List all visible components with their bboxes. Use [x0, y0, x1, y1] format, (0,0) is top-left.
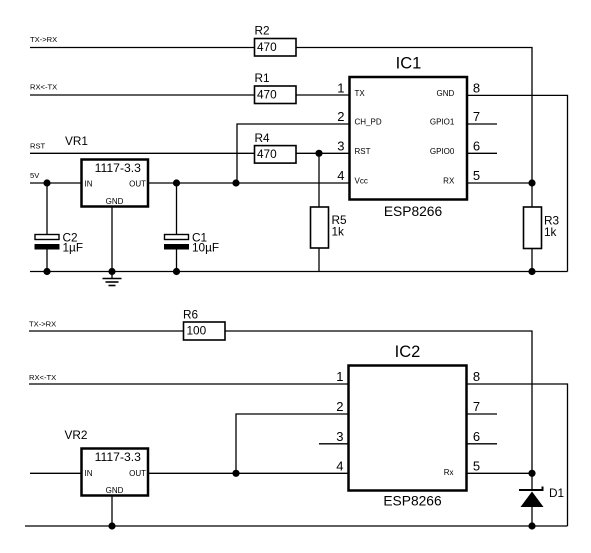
wire R2 right to corner x=532 down to RX node — [296, 48, 532, 184]
svg-text:IC2: IC2 — [395, 343, 421, 361]
svg-text:5V: 5V — [30, 171, 40, 180]
wire RST label to R4 — [30, 152, 255, 154]
wire IC2 pin 3 stub — [319, 443, 349, 445]
junction RX node at R3 — [528, 179, 535, 186]
wire R5 tap down to R5 — [318, 153, 320, 207]
wire IC2 pin 7 stub — [467, 413, 498, 415]
svg-text:7: 7 — [473, 109, 480, 124]
junction VR2 OUT at pin2 tap — [232, 470, 239, 477]
junction Vcc at C1 tap — [173, 179, 180, 186]
resistor R2 — [255, 24, 297, 57]
svg-text:Vcc: Vcc — [355, 177, 368, 186]
svg-text:10µF: 10µF — [192, 241, 219, 255]
wire IC1 pin 6 stub — [467, 152, 497, 154]
capacitor C1 — [164, 183, 219, 272]
junction C1 at ground rail — [173, 268, 180, 275]
svg-text:100: 100 — [187, 324, 207, 338]
svg-text:GND: GND — [106, 486, 124, 495]
svg-text:RX: RX — [443, 177, 455, 186]
wire ground rail (bottom section) — [25, 525, 568, 527]
wire IC1 pin 8 GND right and down to ground rail — [467, 95, 568, 271]
wire D1 anode to bottom rail — [531, 507, 533, 526]
wire VR1 GND down to ground rail — [111, 207, 113, 272]
wire R6 right to corner x=532 down to IC2 pin 5 node — [225, 331, 532, 473]
svg-text:ESP8266: ESP8266 — [384, 204, 443, 219]
svg-text:3: 3 — [336, 429, 343, 444]
svg-text:GND: GND — [437, 89, 455, 98]
svg-text:1: 1 — [337, 80, 344, 95]
wire IC1 pin 5 RX to node — [467, 182, 532, 184]
wire R4 to IC1 pin 3 — [296, 152, 350, 154]
wire IC2 pin 2 left then down to OUT net — [236, 414, 349, 473]
svg-text:5: 5 — [473, 458, 480, 473]
junction D1 at bottom rail — [528, 522, 535, 529]
svg-text:1117-3.3: 1117-3.3 — [95, 161, 142, 175]
diode D1 — [519, 486, 564, 507]
svg-text:R1: R1 — [255, 71, 270, 85]
wire IC2 pin 5 to D1 node — [467, 472, 533, 474]
svg-text:RST: RST — [355, 147, 371, 156]
svg-text:IN: IN — [85, 180, 93, 189]
junction VR1 GND at ground rail — [108, 268, 115, 275]
wire R1 to IC1 pin 1 — [296, 94, 350, 96]
svg-text:1µF: 1µF — [63, 241, 84, 255]
svg-text:RST: RST — [30, 142, 46, 151]
wire TX->RX label to R6 — [29, 330, 184, 332]
wire VR2 GND down to bottom rail — [111, 496, 113, 527]
svg-text:3: 3 — [337, 138, 344, 153]
svg-text:470: 470 — [257, 88, 277, 102]
svg-text:ESP8266: ESP8266 — [383, 494, 442, 509]
regulator VR2 — [65, 428, 149, 496]
resistor R3 — [524, 207, 560, 249]
regulator VR1 — [65, 134, 148, 207]
op IC1 ESP8266 — [350, 55, 468, 220]
op IC2 ESP8266 — [349, 343, 467, 509]
wire 5V label to VR1 IN — [30, 182, 82, 184]
svg-text:6: 6 — [473, 138, 480, 153]
svg-text:R2: R2 — [255, 24, 270, 38]
junction pin5 node at D1 — [528, 470, 535, 477]
wire IC2 pin 6 stub — [467, 443, 498, 445]
wire IC1 pin 7 stub — [467, 123, 497, 125]
wire TX->RX label to R2 — [30, 47, 255, 49]
svg-text:4: 4 — [337, 168, 344, 183]
svg-text:GPIO0: GPIO0 — [430, 147, 455, 156]
wire R3 bottom to ground rail — [531, 249, 533, 272]
svg-text:IN: IN — [85, 469, 93, 478]
resistor R1 — [255, 71, 297, 104]
svg-text:7: 7 — [473, 399, 480, 414]
svg-text:CH_PD: CH_PD — [355, 118, 382, 127]
svg-text:2: 2 — [336, 399, 343, 414]
wire R5 bottom to ground rail — [318, 248, 320, 272]
svg-text:GND: GND — [106, 197, 124, 206]
capacitor C2 — [35, 183, 84, 272]
resistor R4 — [255, 131, 297, 163]
junction C2 at ground rail — [43, 268, 50, 275]
svg-text:R4: R4 — [255, 131, 271, 145]
resistor R5 — [311, 207, 348, 248]
wire ground rail (top section) — [30, 271, 568, 273]
svg-text:RX<-TX: RX<-TX — [30, 83, 57, 92]
svg-text:1: 1 — [336, 369, 343, 384]
svg-text:D1: D1 — [549, 486, 564, 500]
svg-text:2: 2 — [337, 109, 344, 124]
wire VR2 OUT to IC2 pin 4 — [148, 472, 349, 474]
svg-text:8: 8 — [473, 80, 480, 95]
junction R3 at ground rail — [528, 268, 535, 275]
svg-text:TX->RX: TX->RX — [29, 320, 56, 329]
svg-text:1117-3.3: 1117-3.3 — [95, 450, 142, 464]
svg-text:Rx: Rx — [444, 468, 454, 477]
wire RX<-TX label to IC2 pin 1 — [29, 383, 349, 385]
svg-text:1k: 1k — [544, 225, 557, 239]
wire node down to D1 cathode — [531, 473, 533, 490]
wire VR1 OUT to IC1 pin 4 (Vcc) — [148, 182, 350, 184]
svg-text:VR2: VR2 — [65, 428, 88, 442]
svg-text:RX<-TX: RX<-TX — [29, 373, 56, 382]
wire into VR2 IN — [30, 472, 82, 474]
wire IC2 pin 8 right and down to bottom rail — [467, 384, 568, 526]
svg-text:VR1: VR1 — [65, 134, 88, 148]
svg-text:R6: R6 — [183, 308, 199, 322]
wire RX node down to R3 — [531, 183, 533, 207]
svg-text:470: 470 — [257, 147, 277, 161]
junction Vcc at CH_PD tap — [232, 179, 239, 186]
svg-text:IC1: IC1 — [396, 55, 422, 73]
svg-text:GPIO1: GPIO1 — [430, 118, 455, 127]
svg-text:8: 8 — [473, 369, 480, 384]
svg-text:470: 470 — [257, 40, 277, 54]
junction on RST net at R5 tap — [315, 150, 322, 157]
svg-text:TX: TX — [355, 89, 366, 98]
junction VR2 GND at bottom rail — [108, 522, 115, 529]
wire CH_PD from IC1 pin 2 left then down to Vcc — [237, 124, 350, 183]
junction 5V at C2 tap — [43, 179, 50, 186]
svg-text:5: 5 — [473, 168, 480, 183]
svg-text:6: 6 — [473, 429, 480, 444]
svg-text:OUT: OUT — [129, 469, 146, 478]
wire RX<-TX label to R1 — [30, 94, 255, 96]
svg-text:4: 4 — [336, 458, 343, 473]
ground — [103, 272, 122, 286]
resistor R6 — [183, 308, 225, 341]
svg-text:TX->RX: TX->RX — [30, 35, 57, 44]
svg-text:OUT: OUT — [129, 180, 146, 189]
svg-text:1k: 1k — [332, 225, 345, 239]
